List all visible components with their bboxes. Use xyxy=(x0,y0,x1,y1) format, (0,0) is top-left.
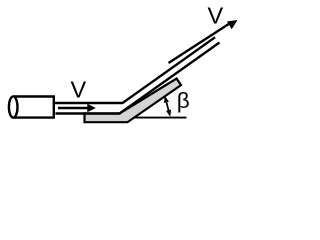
svg-text:V: V xyxy=(207,2,223,28)
svg-text:V: V xyxy=(70,77,86,103)
svg-text:β: β xyxy=(177,88,190,113)
